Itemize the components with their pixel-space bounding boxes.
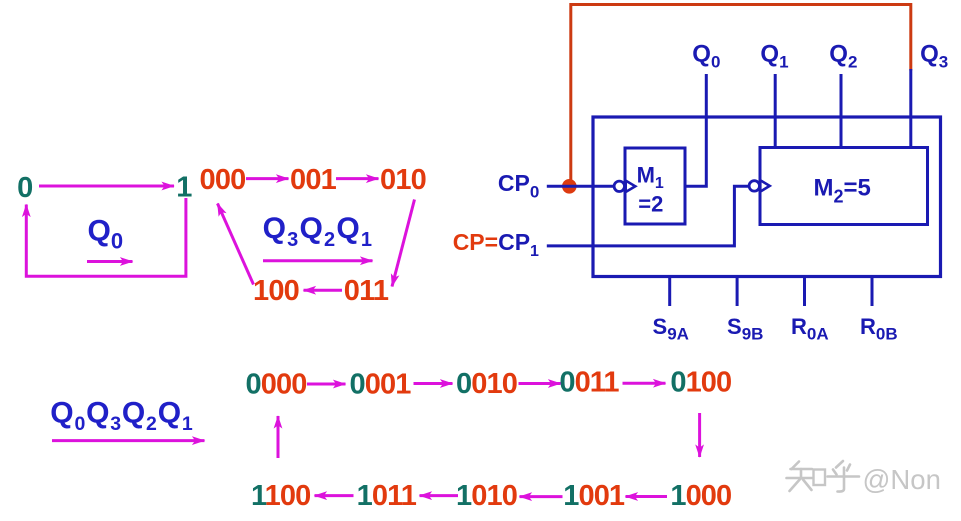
svg-text:Q3Q2Q1: Q3Q2Q1: [263, 212, 374, 251]
arrow 001 to 010: [336, 177, 379, 180]
arrow 000 to 001: [246, 177, 289, 180]
svg-text:0: 0: [17, 172, 33, 204]
svg-text:001: 001: [290, 164, 337, 196]
wire CP0 input: [547, 185, 614, 188]
arrow 0000 to 0001: [307, 383, 346, 386]
svg-text:S9B: S9B: [727, 314, 763, 344]
arrow 0011 to 0100: [623, 382, 666, 385]
wire Q1: [774, 74, 777, 149]
svg-text:S9A: S9A: [653, 314, 689, 344]
svg-text:0010: 0010: [456, 368, 517, 400]
wire M1 output to Q0: [685, 74, 706, 186]
clock bubble M1: [614, 181, 624, 191]
arrow 011 to 100: [304, 289, 343, 292]
arrow 100 up to 000: [218, 204, 254, 285]
wire Q3 (blue segment): [909, 69, 912, 149]
clock bubble M2: [749, 181, 759, 191]
svg-text:000: 000: [200, 164, 246, 196]
arrow 1001 to 1010: [520, 495, 563, 498]
svg-text:1: 1: [176, 172, 192, 204]
watermark zhihu glyphs: [787, 461, 860, 492]
svg-text:R0B: R0B: [860, 314, 898, 344]
svg-text:@Non: @Non: [863, 464, 941, 495]
svg-text:M1: M1: [637, 162, 664, 192]
svg-text:010: 010: [380, 164, 426, 196]
svg-text:Q0: Q0: [692, 41, 720, 72]
arrow 1000 to 1001: [626, 495, 668, 498]
svg-text:Q1: Q1: [760, 41, 788, 72]
node junction dot on CP0: [562, 179, 577, 194]
svg-text:0011: 0011: [559, 367, 619, 399]
svg-text:1010: 1010: [456, 480, 517, 512]
arrow 0010 to 0011: [519, 382, 561, 385]
svg-text:1001: 1001: [563, 480, 625, 512]
arrow 0001 to 0010: [414, 382, 453, 385]
svg-text:0100: 0100: [670, 367, 731, 399]
pin S9A stub: [668, 277, 671, 307]
arrow 1100 up to 0000: [277, 416, 280, 458]
svg-text:CP0: CP0: [498, 170, 539, 202]
arrow 010 down to 011: [392, 200, 415, 287]
arrow 0100 down to 1000: [698, 413, 701, 457]
pin S9B stub: [736, 277, 739, 307]
svg-text:100: 100: [253, 275, 299, 307]
svg-text:Q2: Q2: [829, 41, 857, 72]
block M2 =5 box: [760, 148, 928, 225]
arrow 1011 to 1100: [315, 494, 354, 497]
svg-text:0000: 0000: [246, 369, 307, 401]
block M1 =2 box: [625, 148, 685, 224]
wire CP=CP1 input: [547, 186, 749, 246]
arrow under label Q0: [87, 260, 133, 263]
svg-text:1000: 1000: [670, 480, 731, 512]
pin R0B stub: [871, 277, 874, 307]
arrow 1010 to 1011: [420, 494, 459, 497]
pin R0A stub: [803, 277, 806, 307]
svg-text:=2: =2: [638, 191, 663, 216]
outer counter box: [593, 117, 941, 277]
svg-text:CP=CP1: CP=CP1: [453, 229, 539, 260]
wire Q3 feedback to CP0 (orange): [571, 5, 911, 184]
svg-text:1100: 1100: [251, 480, 310, 512]
svg-text:M2=5: M2=5: [814, 174, 871, 206]
feedback wire state 1 back to state 0: [26, 198, 186, 276]
arrow state 0 to state 1: [39, 185, 174, 188]
arrow under label Q3Q2Q1: [263, 259, 373, 262]
svg-text:0001: 0001: [350, 369, 412, 401]
svg-text:Q0: Q0: [88, 215, 124, 254]
arrow under label Q0Q3Q2Q1: [52, 439, 205, 442]
svg-text:Q0Q3Q2Q1: Q0Q3Q2Q1: [50, 396, 193, 435]
svg-text:011: 011: [344, 275, 389, 307]
clock triangle M2: [760, 180, 769, 191]
wire Q2: [840, 74, 843, 149]
clock triangle M1: [626, 181, 636, 192]
svg-text:R0A: R0A: [791, 314, 829, 344]
svg-text:1011: 1011: [357, 480, 417, 512]
svg-text:Q3: Q3: [920, 41, 948, 72]
